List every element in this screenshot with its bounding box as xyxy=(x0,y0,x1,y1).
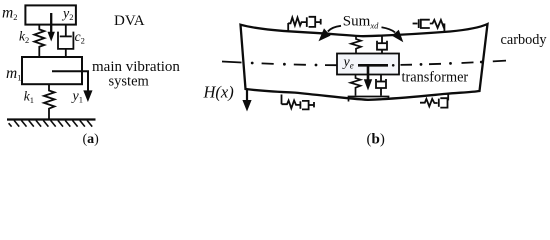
svg-text:carbody: carbody xyxy=(501,32,548,48)
arrow ye xyxy=(364,65,372,90)
spring above transformer xyxy=(351,36,361,54)
svg-text:system: system xyxy=(109,74,150,90)
mass m2 box xyxy=(25,5,76,24)
reference bar xyxy=(358,64,388,67)
sum arrow right xyxy=(382,27,404,42)
svg-text:y1: y1 xyxy=(71,89,83,105)
transformer box xyxy=(337,54,399,75)
bottom-right suspension xyxy=(420,94,448,108)
centerline (dash-dot axis) xyxy=(222,61,506,67)
carbody outline xyxy=(241,24,488,100)
arrow y1 xyxy=(52,71,93,102)
svg-text:k2: k2 xyxy=(19,29,29,46)
ground xyxy=(7,120,96,127)
arrow H(x) xyxy=(242,89,251,112)
bottom-left suspension xyxy=(282,95,315,110)
damper below transformer xyxy=(376,75,386,96)
lower bracket xyxy=(349,97,389,102)
svg-text:m2: m2 xyxy=(2,4,17,22)
svg-text:c2: c2 xyxy=(75,29,85,46)
svg-text:transformer: transformer xyxy=(402,70,469,86)
svg-text:(b): (b) xyxy=(367,132,385,148)
sum arrow left xyxy=(319,26,342,42)
svg-text:Sumxd: Sumxd xyxy=(343,14,379,31)
mass m1 box xyxy=(22,57,82,84)
svg-text:k1: k1 xyxy=(24,88,34,105)
centerline dot xyxy=(392,64,395,67)
spring k2 xyxy=(34,25,44,57)
top-left suspension (spring-damper) xyxy=(288,17,321,31)
spring below transformer xyxy=(351,75,361,96)
svg-text:main vibration: main vibration xyxy=(92,59,180,75)
arrow y2 xyxy=(48,13,55,42)
svg-text:DVA: DVA xyxy=(114,13,145,29)
svg-text:y2: y2 xyxy=(61,7,73,23)
svg-text:m1: m1 xyxy=(6,65,21,83)
svg-text:H(x): H(x) xyxy=(203,82,234,101)
top-right suspension (damper-spring) xyxy=(413,19,445,32)
svg-text:(a): (a) xyxy=(83,132,100,147)
damper above transformer xyxy=(377,36,387,53)
spring k1 xyxy=(44,84,55,119)
damper c2 xyxy=(58,25,73,57)
